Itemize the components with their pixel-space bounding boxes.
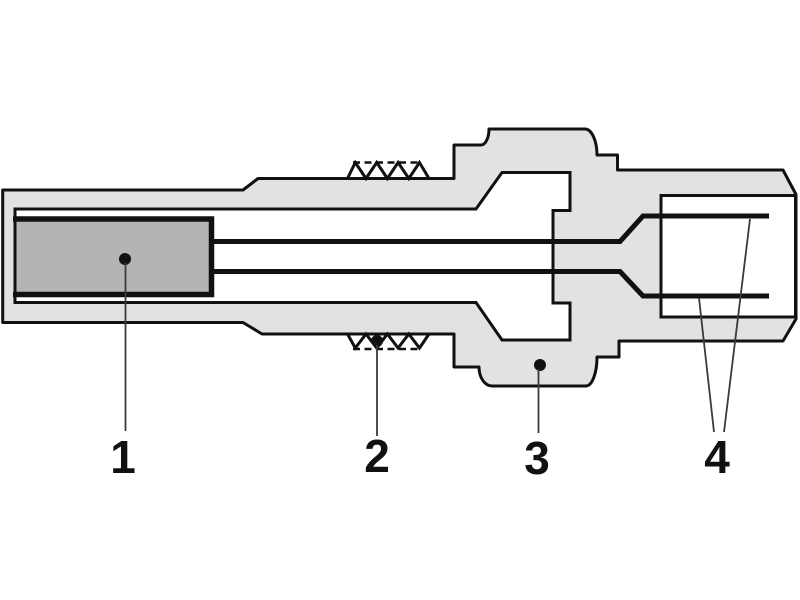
thread crest dashed line bottom [353, 348, 421, 351]
wire top [211, 216, 769, 242]
leader 4 right (to top wire) [724, 219, 750, 432]
thread crest dashed line top [353, 161, 421, 164]
leader 1 [125, 263, 127, 431]
svg-text:3: 3 [524, 432, 550, 484]
thread teeth top [348, 163, 430, 179]
svg-text:2: 2 [364, 430, 390, 482]
svg-text:1: 1 [110, 431, 136, 483]
sensing element border (thick top/right/bottom) [13, 219, 212, 295]
leader 2 [376, 345, 378, 436]
sensing element (dark grey) [17, 221, 212, 293]
dot 3 (body) [534, 359, 546, 371]
sensor body outer profile (housing with threads and hex) [3, 129, 796, 386]
dot 2 (threads) [371, 335, 383, 347]
wire bottom [211, 272, 769, 297]
connector cavity (white rectangle, right) [661, 196, 796, 318]
svg-text:4: 4 [704, 431, 730, 483]
inner cavity (white) [15, 173, 570, 341]
dot 1 (element) [119, 253, 131, 265]
leader 3 [538, 369, 540, 433]
thread teeth bottom [348, 334, 430, 348]
leader 4 left (to bottom wire) [699, 298, 714, 432]
